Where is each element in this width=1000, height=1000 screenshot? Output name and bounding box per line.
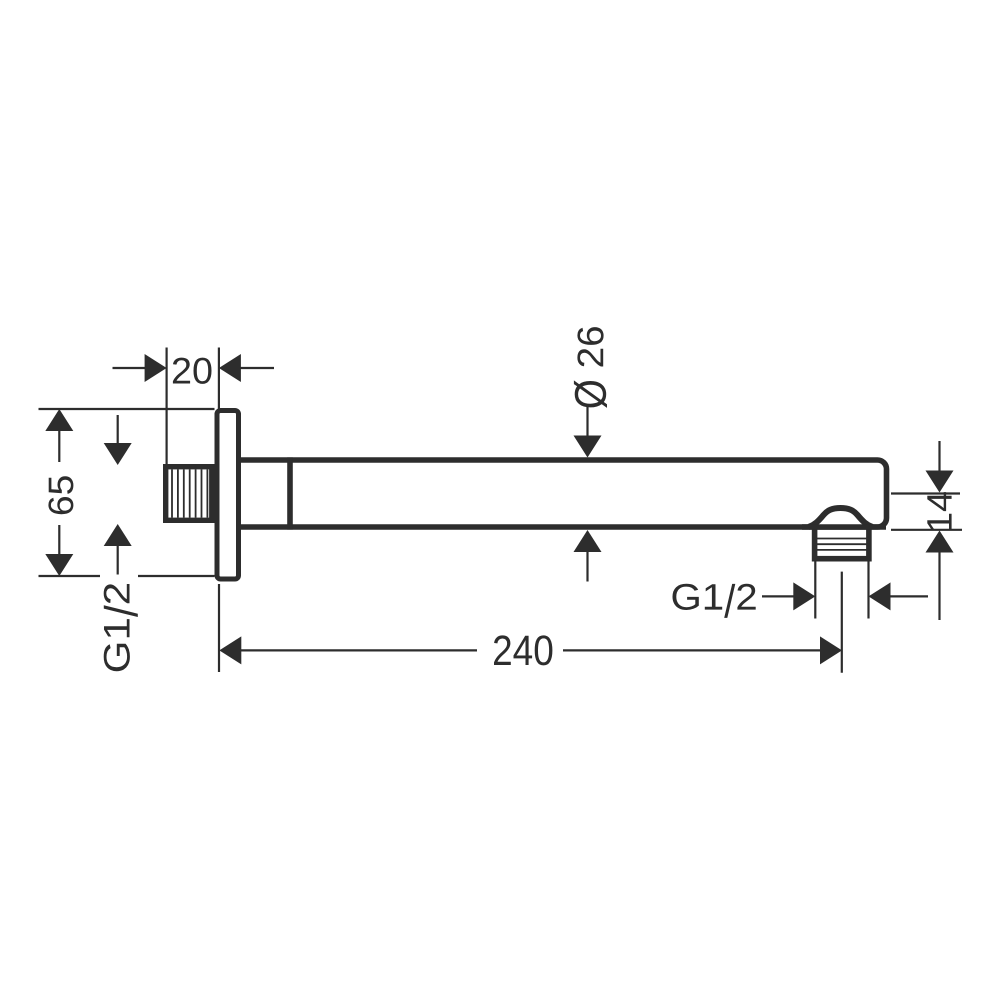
dim 65: top extension line [39, 408, 215, 410]
label G1/2 left rotated [104, 584, 138, 671]
dim 65: arrowhead up-pointing [45, 409, 73, 431]
label 240 [494, 635, 552, 665]
wall escutcheon plate [217, 411, 239, 580]
dim 20: extension line left [166, 348, 168, 467]
dim 14: arrowhead down-pointing [926, 471, 954, 493]
dim 240: arrowhead right-pointing [820, 636, 842, 664]
outlet thread box G1/2 [815, 527, 869, 559]
dim 240: extension line left [218, 584, 220, 672]
label 14 rotated [927, 492, 951, 530]
dim 240: centerline right [841, 572, 843, 673]
tube bottom line under dome [802, 524, 886, 530]
dim 240: line segments [240, 649, 821, 651]
wall thread nipple [166, 467, 212, 521]
label G1/2 right [673, 584, 756, 618]
label O26 rotated [574, 327, 607, 408]
label 20 [173, 358, 212, 384]
dim 20: left tail [113, 367, 147, 369]
dim G1/2 left: arrowhead down-pointing [104, 443, 132, 465]
dim 65: bottom extension line [39, 575, 215, 577]
dim 14: tails [938, 441, 940, 620]
dim Ø26: arrowhead up-pointing [574, 530, 602, 552]
dim 14: extension lines [891, 494, 962, 530]
dim G1/2 left: tails [117, 415, 119, 575]
label 65 rotated [48, 476, 73, 514]
extension lines below outlet thread [815, 561, 868, 619]
collar divider line [287, 457, 293, 529]
outlet dome hood [809, 508, 873, 527]
dim 65: line segments [58, 429, 60, 556]
nipple thread lines [172, 469, 207, 517]
dim 20: arrowhead left-pointing [219, 354, 241, 382]
dim Ø26: tails [586, 406, 588, 582]
dim 20: arrowhead right-pointing [145, 354, 167, 382]
dim G1/2 left: arrowhead up-pointing [104, 524, 132, 546]
dim G1/2 right: arrowhead right-pointing [793, 582, 815, 610]
dim 20: extension line right [218, 348, 220, 410]
dim 20: right tail [240, 367, 274, 369]
dim G1/2 right: leader lines [762, 595, 928, 597]
outlet thread lines [814, 539, 870, 550]
shower arm tube [238, 460, 887, 527]
dim 65: arrowhead down-pointing [45, 554, 73, 576]
dim G1/2 right: arrowhead left-pointing [869, 582, 891, 610]
dim 240: arrowhead left-pointing [219, 636, 241, 664]
dim Ø26: arrowhead down-pointing [574, 436, 602, 458]
dim 14: arrowhead up-pointing [926, 531, 954, 553]
